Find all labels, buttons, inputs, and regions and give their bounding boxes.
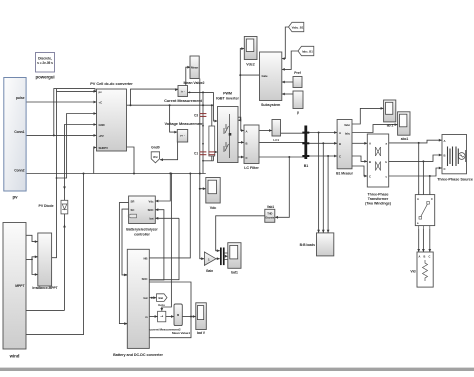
svg-text:C: C bbox=[246, 156, 248, 160]
svg-text:Pref: Pref bbox=[294, 71, 301, 75]
svg-text:A: A bbox=[339, 131, 341, 135]
svg-text:THD: THD bbox=[267, 212, 272, 216]
svg-text:Mean Value1: Mean Value1 bbox=[172, 331, 190, 335]
svg-text:B:B loads: B:B loads bbox=[300, 243, 316, 247]
svg-text:C: C bbox=[369, 175, 371, 179]
svg-text:Mean Value2: Mean Value2 bbox=[183, 81, 204, 85]
svg-text:Iabc: Iabc bbox=[345, 132, 351, 136]
svg-text:PWM: PWM bbox=[223, 92, 232, 96]
svg-text:Goto: Goto bbox=[158, 303, 165, 307]
svg-text:SR: SR bbox=[131, 199, 135, 203]
svg-text:A: A bbox=[444, 139, 446, 143]
svg-text:Discrete,: Discrete, bbox=[38, 57, 52, 61]
svg-text:B: B bbox=[369, 160, 371, 164]
svg-text:B: B bbox=[424, 255, 426, 259]
svg-text:Vdc: Vdc bbox=[149, 199, 154, 203]
svg-text:pv: pv bbox=[12, 195, 18, 200]
svg-text:SOC: SOC bbox=[142, 277, 148, 281]
svg-text:Battery and DC-DC converter: Battery and DC-DC converter bbox=[113, 353, 163, 357]
svg-text:powergui: powergui bbox=[35, 75, 54, 80]
svg-text:ab 2: ab 2 bbox=[387, 124, 394, 128]
svg-text:Three-Phase Source: Three-Phase Source bbox=[437, 178, 473, 182]
svg-text:IGBT inverter: IGBT inverter bbox=[216, 97, 239, 101]
svg-text:Irradiance-MPPT: Irradiance-MPPT bbox=[32, 286, 57, 290]
svg-text:Vld: Vld bbox=[410, 270, 415, 274]
svg-text:s = 2e-05 s: s = 2e-05 s bbox=[37, 61, 53, 65]
svg-text:Three-Phase: Three-Phase bbox=[367, 193, 388, 197]
svg-text:B: B bbox=[444, 154, 446, 158]
svg-text:B1: B1 bbox=[304, 164, 309, 168]
svg-text:Gnd0: Gnd0 bbox=[151, 146, 160, 150]
svg-text:Vdc: Vdc bbox=[210, 206, 217, 210]
svg-text:bat1: bat1 bbox=[231, 271, 238, 275]
svg-text:SOC: SOC bbox=[148, 208, 154, 212]
svg-text:B: B bbox=[339, 142, 341, 146]
svg-text:C3: C3 bbox=[194, 114, 198, 118]
svg-text:C: C bbox=[431, 197, 433, 201]
svg-text:Battery/electrolyzer: Battery/electrolyzer bbox=[126, 228, 158, 232]
svg-text:NB: NB bbox=[144, 257, 148, 261]
svg-text:Vdc2: Vdc2 bbox=[246, 63, 254, 67]
svg-text:+PV: +PV bbox=[99, 134, 104, 138]
svg-text:C: C bbox=[339, 155, 341, 159]
svg-text:Discrete: Discrete bbox=[265, 217, 274, 220]
svg-text:Bat: Bat bbox=[159, 296, 164, 300]
svg-text:Mean: Mean bbox=[191, 65, 198, 69]
svg-text:SC: SC bbox=[131, 208, 135, 212]
svg-text:C: C bbox=[444, 167, 446, 171]
svg-text:Iabc_B1: Iabc_B1 bbox=[302, 49, 313, 53]
svg-text:C: C bbox=[429, 255, 431, 259]
svg-text:A: A bbox=[246, 130, 248, 134]
svg-text:A: A bbox=[419, 255, 421, 259]
svg-text:Voltage Measurement: Voltage Measurement bbox=[165, 121, 205, 126]
svg-text:Gate: Gate bbox=[262, 74, 269, 78]
svg-text:bat: bat bbox=[149, 217, 153, 221]
svg-text:abc1: abc1 bbox=[401, 137, 409, 141]
svg-text:PV Cell dc-dc converter: PV Cell dc-dc converter bbox=[90, 81, 133, 86]
svg-text:A: A bbox=[417, 197, 419, 201]
svg-text:i+ -: i+ - bbox=[181, 90, 185, 94]
svg-text:Subsystem: Subsystem bbox=[261, 103, 281, 107]
svg-text:-+: -+ bbox=[160, 315, 163, 319]
svg-text:B: B bbox=[246, 142, 248, 146]
svg-text:LC Filter: LC Filter bbox=[244, 166, 259, 170]
svg-text:MPPT: MPPT bbox=[15, 284, 25, 288]
svg-text:Curent Measurement: Curent Measurement bbox=[164, 98, 203, 103]
svg-text:pv: pv bbox=[99, 90, 103, 94]
svg-text:Conn1: Conn1 bbox=[14, 130, 24, 134]
svg-text:controller: controller bbox=[134, 232, 150, 236]
svg-text:Vabc: Vabc bbox=[344, 123, 350, 127]
svg-text:M: M bbox=[177, 313, 179, 317]
svg-text:bat V: bat V bbox=[197, 331, 206, 335]
svg-text:wind: wind bbox=[9, 354, 20, 359]
svg-text:PV Diode: PV Diode bbox=[39, 204, 54, 208]
svg-text:GND: GND bbox=[99, 123, 105, 127]
svg-text:pulse: pulse bbox=[16, 96, 25, 100]
svg-text:Gain: Gain bbox=[206, 269, 213, 273]
svg-text:Vabc_B1: Vabc_B1 bbox=[292, 25, 304, 29]
svg-text:LC1: LC1 bbox=[273, 138, 279, 142]
svg-text:SHDPV: SHDPV bbox=[99, 146, 109, 150]
svg-text:C1: C1 bbox=[194, 152, 198, 156]
svg-text:Vab1: Vab1 bbox=[267, 205, 275, 209]
svg-text:(Two Windings): (Two Windings) bbox=[365, 202, 392, 206]
svg-text:v+ -: v+ - bbox=[180, 134, 185, 138]
svg-text:bat: bat bbox=[143, 296, 147, 300]
svg-text:Transformer: Transformer bbox=[368, 197, 389, 201]
svg-text:Vrtc: Vrtc bbox=[153, 155, 159, 159]
svg-text:+C: +C bbox=[99, 101, 103, 105]
svg-text:A: A bbox=[369, 142, 371, 146]
svg-text:B1 Measur: B1 Measur bbox=[336, 172, 353, 176]
svg-text:p: p bbox=[297, 111, 299, 115]
svg-text:Conn2: Conn2 bbox=[14, 169, 24, 173]
